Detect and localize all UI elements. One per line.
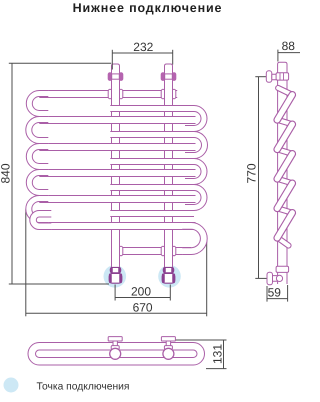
junction nub left of left riser on top tube bbox=[108, 89, 112, 99]
side top bracket plate bbox=[266, 71, 272, 83]
side coil front diagonals bbox=[277, 95, 292, 238]
coil tube 4 bbox=[39, 170, 195, 177]
dim 131 ext bottom bbox=[206, 368, 227, 370]
coil right bend 2 bbox=[185, 132, 208, 159]
coil left bend 5 bbox=[26, 196, 49, 223]
dim 770 line bbox=[258, 77, 260, 279]
dim 770 ext top bbox=[255, 76, 266, 78]
junction nub right of right riser on top tube bbox=[172, 89, 176, 99]
junction nub right of right riser on bottom run bbox=[172, 246, 176, 256]
coil back tube 4 bbox=[110, 185, 194, 191]
side bottom bracket stem bbox=[273, 276, 278, 282]
dim 232 line bbox=[112, 52, 172, 54]
dim 200 line bbox=[115, 297, 170, 299]
coil back tube 2 bbox=[110, 132, 194, 138]
dim 131 ext top bbox=[174, 339, 227, 341]
dim 59 line bbox=[267, 298, 288, 300]
dim 59 ext right bbox=[287, 285, 289, 302]
side bottom valve knob bbox=[276, 275, 282, 281]
riser left over bottom run bbox=[112, 246, 120, 256]
bottom connection union left bbox=[109, 267, 122, 283]
coil left bend 1 bbox=[26, 91, 48, 117]
side top union nut bbox=[276, 73, 289, 80]
coil tube 2 bbox=[39, 117, 195, 124]
junction nub right of left riser on bottom run bbox=[119, 246, 123, 256]
svg-text:232: 232 bbox=[133, 40, 153, 54]
side bottom union nut bbox=[276, 266, 289, 272]
top view ring inner bbox=[36, 350, 198, 358]
top view ring outer bbox=[28, 343, 205, 366]
svg-text:88: 88 bbox=[282, 39, 296, 53]
dim 770 ext bottom bbox=[255, 277, 267, 279]
dim 200 ext left bbox=[114, 285, 116, 301]
riser top union nut left bbox=[108, 73, 123, 81]
dim 200 ext right bbox=[169, 285, 171, 301]
coil tube 3 bbox=[39, 144, 195, 151]
coil tube 6 bbox=[39, 223, 195, 230]
dim 670 ext right bbox=[206, 239, 208, 316]
coil back tube 5 bbox=[110, 211, 194, 217]
top view connection fitting right bbox=[161, 337, 175, 360]
svg-text:670: 670 bbox=[133, 300, 153, 314]
coil right bend 1 bbox=[185, 106, 207, 132]
dim 840 ext bottom bbox=[9, 283, 109, 285]
dim 88 ext bbox=[277, 50, 279, 62]
coil right bend 3 bbox=[185, 159, 207, 185]
top view connection fitting left bbox=[108, 337, 122, 360]
coil left bend 3 bbox=[26, 144, 48, 170]
dim 840 ext top bbox=[9, 62, 111, 64]
dim 232 ext right bbox=[172, 50, 174, 65]
side pipe bbox=[278, 62, 287, 284]
coil left bend 4 bbox=[26, 170, 48, 196]
junction nub left of right riser on bottom run bbox=[161, 246, 165, 256]
dim 232 ext left bbox=[111, 50, 113, 70]
svg-text:Нижнее подключение: Нижнее подключение bbox=[73, 1, 223, 15]
riser right over bottom run bbox=[165, 246, 173, 256]
coil tube 5 bbox=[39, 196, 195, 203]
dim 88 line bbox=[278, 52, 300, 54]
coil bottom run bbox=[115, 248, 192, 255]
riser pipe right bbox=[165, 64, 173, 267]
riser pipe left bbox=[112, 64, 120, 267]
bottom connection union right bbox=[162, 267, 175, 283]
coil left bend 2 bbox=[26, 117, 49, 144]
coil right bend 4 bbox=[185, 185, 207, 211]
dim 131 line bbox=[223, 340, 225, 369]
dim 840 line bbox=[11, 63, 13, 284]
svg-text:Точка подключения: Точка подключения bbox=[37, 382, 130, 393]
svg-text:840: 840 bbox=[0, 163, 12, 183]
coil back tube 1 bbox=[110, 106, 194, 112]
dim 670 line bbox=[26, 312, 207, 314]
svg-text:770: 770 bbox=[244, 163, 258, 183]
side top nut lines bbox=[279, 73, 281, 80]
riser left over top tube bbox=[112, 89, 120, 99]
coil left end bend 6 bbox=[30, 211, 51, 230]
riser top union nut right bbox=[161, 73, 176, 81]
svg-text:131: 131 bbox=[211, 344, 225, 364]
dim 670 ext left bbox=[25, 210, 27, 317]
junction nub left of right riser on top tube bbox=[161, 89, 165, 99]
side coil back diagonals bbox=[278, 88, 293, 246]
coil bottom right bend bbox=[182, 223, 207, 255]
coil tube 1 (top) bbox=[39, 91, 177, 98]
connection point highlight left bbox=[104, 265, 127, 288]
side bottom bracket plate bbox=[267, 272, 273, 285]
coil back tube 3 bbox=[110, 159, 194, 165]
dim 59 ext left bbox=[266, 286, 268, 302]
svg-text:200: 200 bbox=[131, 284, 151, 298]
svg-text:59: 59 bbox=[268, 285, 282, 299]
connection point highlight right bbox=[158, 265, 181, 288]
legend connection point dot bbox=[4, 378, 19, 393]
side top bracket stem bbox=[272, 74, 278, 80]
riser right over top tube bbox=[165, 89, 173, 99]
junction nub right of left riser on top tube bbox=[119, 89, 123, 99]
